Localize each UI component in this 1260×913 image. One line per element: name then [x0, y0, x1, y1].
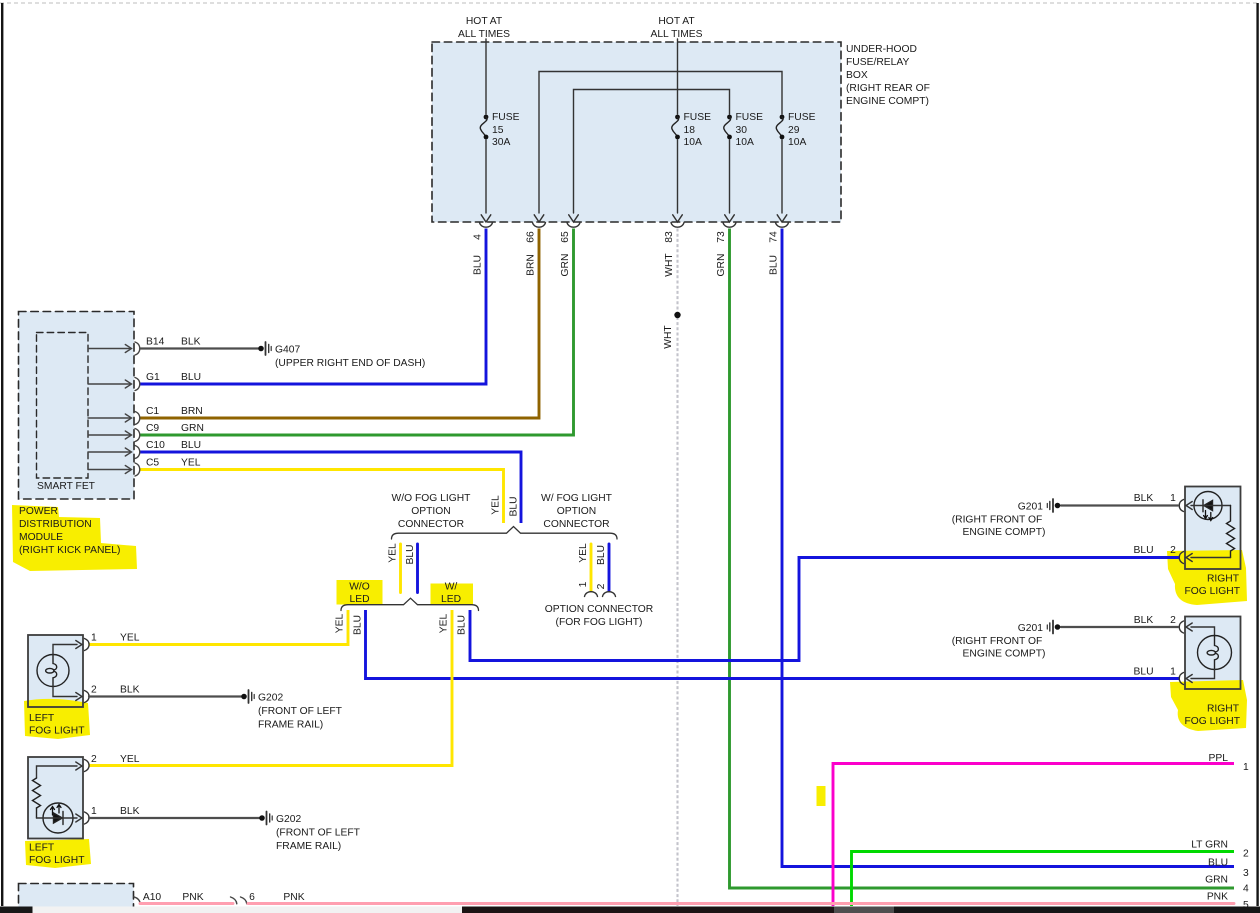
svg-text:10A: 10A: [736, 137, 754, 148]
bottom scrollbar track light segment: [0, 907, 1260, 913]
svg-text:HOT AT: HOT AT: [658, 16, 695, 27]
svg-text:POWER: POWER: [19, 506, 58, 517]
svg-text:GRN: GRN: [1205, 875, 1228, 886]
bottom module dashed border: [19, 884, 134, 913]
wire BRN from terminal 66 to pin C1: [140, 229, 539, 419]
svg-text:BLK: BLK: [1134, 493, 1154, 504]
right fog light 2 box fill: [1185, 617, 1241, 690]
wire PNK from inline connector to bottom right pin 5: [248, 902, 1234, 905]
led symbol right fog light 1: [1194, 492, 1222, 520]
terminal 65 arrow and connector: [567, 215, 580, 227]
svg-text:A10: A10: [143, 892, 162, 903]
svg-text:CONNECTOR: CONNECTOR: [543, 519, 609, 530]
terminal 4 arrow and connector: [480, 215, 493, 227]
svg-text:1: 1: [1243, 762, 1249, 773]
svg-text:YEL: YEL: [181, 458, 201, 469]
fuse 30 10A: [724, 112, 763, 148]
internal lead to pin 2 of left fog light 1: [53, 687, 82, 701]
resistor inside right fog light 1: [1227, 506, 1235, 558]
bottom scrollbar black left block: [0, 907, 33, 913]
svg-text:FUSE: FUSE: [788, 112, 816, 123]
power distribution module dashed border: [19, 312, 135, 500]
wire feed to fuse 18: [677, 39, 679, 114]
wire YEL w/ led branch to left fog light 2 pin 2: [89, 610, 452, 766]
pin G1 stub arrow and connector: [88, 378, 140, 391]
svg-text:4: 4: [473, 234, 484, 240]
wire GRN from terminal 65 to pin C9: [140, 229, 574, 436]
internal lead to pin 2 of left fog light 2: [37, 762, 83, 778]
svg-text:15: 15: [492, 125, 504, 136]
option connector terminal 1: [585, 592, 598, 597]
svg-text:1: 1: [91, 806, 97, 817]
wire fuse 18 to terminal 83: [677, 140, 679, 213]
wire PNK from A10 to inline connector: [140, 902, 233, 905]
svg-text:4: 4: [1243, 884, 1249, 895]
svg-text:BLU: BLU: [596, 545, 607, 565]
bulb lamp symbol right fog light 2: [1198, 636, 1232, 670]
svg-text:FOG LIGHT: FOG LIGHT: [1185, 586, 1241, 597]
svg-text:(RIGHT FRONT OF: (RIGHT FRONT OF: [952, 636, 1043, 647]
highlight: w/o led label: [337, 580, 383, 605]
svg-text:BLK: BLK: [120, 806, 140, 817]
smart fet dashed box: [37, 333, 89, 479]
label W/ FOG LIGHT OPTION CONNECTOR: [541, 493, 613, 530]
label RIGHT FOG LIGHT 1: [1185, 574, 1241, 598]
wire BLU w/ option branch: [608, 544, 611, 591]
svg-text:C9: C9: [146, 423, 159, 434]
wire BLK from left fog light 1 to ground G202: [89, 695, 241, 697]
svg-text:BOX: BOX: [846, 70, 868, 81]
internal lead to pin 1 of left fog light 1: [53, 641, 82, 655]
svg-text:2: 2: [596, 583, 607, 589]
label LEFT FOG LIGHT 1: [29, 713, 85, 737]
svg-text:C10: C10: [146, 440, 165, 451]
svg-text:FRAME RAIL): FRAME RAIL): [258, 720, 323, 731]
svg-text:(RIGHT REAR OF: (RIGHT REAR OF: [846, 83, 930, 94]
svg-text:18: 18: [684, 125, 696, 136]
pin 2 connector of left fog light 1: [85, 691, 90, 703]
svg-text:G201: G201: [1018, 502, 1043, 513]
terminal 66 arrow and connector: [533, 215, 546, 227]
led emission arrows left fog light 2: [51, 805, 62, 816]
svg-text:W/: W/: [445, 582, 458, 593]
resistor inside left fog light 2: [33, 778, 41, 808]
svg-text:PNK: PNK: [1207, 892, 1228, 903]
led symbol left fog light 2: [37, 803, 74, 833]
svg-text:3: 3: [1243, 868, 1249, 879]
svg-text:1: 1: [578, 581, 589, 587]
internal lead pin 1 of right fog light 1: [1186, 502, 1231, 510]
svg-text:LED: LED: [349, 594, 369, 605]
svg-text:UNDER-HOOD: UNDER-HOOD: [846, 44, 917, 55]
pin C5 stub arrow and connector: [88, 463, 140, 476]
svg-text:BLU: BLU: [405, 544, 416, 564]
ground G202 (front of left frame rail): [241, 690, 342, 731]
svg-text:6: 6: [249, 892, 255, 903]
wire color labels below fuse box: [473, 253, 780, 277]
svg-text:BLU: BLU: [457, 615, 468, 635]
left fog light 2 box: [28, 757, 83, 839]
svg-text:CONNECTOR: CONNECTOR: [398, 519, 464, 530]
svg-text:ENGINE COMPT): ENGINE COMPT): [846, 96, 929, 107]
svg-text:1: 1: [1170, 493, 1176, 504]
svg-text:PNK: PNK: [182, 892, 203, 903]
svg-text:10A: 10A: [788, 137, 806, 148]
led emission arrows right fog light 1: [1204, 511, 1213, 521]
right fog light 1 box fill: [1185, 487, 1241, 570]
svg-text:83: 83: [664, 231, 675, 243]
svg-text:BRN: BRN: [181, 406, 203, 417]
terminal 73 arrow and connector: [723, 215, 736, 227]
svg-text:65: 65: [560, 231, 571, 243]
svg-text:GRN: GRN: [716, 254, 727, 277]
label LEFT FOG LIGHT 2: [29, 843, 85, 867]
svg-text:2: 2: [1243, 849, 1249, 860]
node splice on WHT wire: [674, 312, 680, 318]
label POWER DISTRIBUTION MODULE (RIGHT KICK PANEL): [19, 506, 120, 556]
pin A10 connector: [134, 897, 141, 904]
pin 2 connector of right fog light 2: [1179, 621, 1183, 633]
wire BLK from left fog light 2 to ground G202: [89, 817, 259, 819]
wire LT GRN to bottom right pin 2: [852, 852, 1235, 907]
svg-text:(FRONT OF LEFT: (FRONT OF LEFT: [258, 706, 343, 717]
wire BLU w/o option branch: [416, 544, 419, 593]
fuse 18 10A: [672, 112, 711, 148]
wire BLK from pin B14 to ground G407: [140, 347, 258, 349]
pin 1 connector of left fog light 1: [85, 639, 90, 651]
wire BLU from terminal 74 to bottom right pin 3: [782, 229, 1234, 867]
wire fuse 29 to terminal 74: [781, 140, 783, 213]
label W/O LED: [349, 582, 370, 606]
pin number labels for fuse box terminals: [473, 231, 780, 243]
svg-text:GRN: GRN: [181, 423, 204, 434]
pin labels B14 BLK / G1 BLU / C1 BRN / C9 GRN / C10 BLU / C5 YEL: [146, 337, 204, 469]
svg-text:C1: C1: [146, 406, 159, 417]
wire BLU w/o led branch to right fog light 2 pin 1: [366, 610, 1181, 679]
svg-text:2: 2: [91, 685, 97, 696]
svg-text:FUSE/RELAY: FUSE/RELAY: [846, 57, 909, 68]
wire BLK from ground G201 to right fog light 2: [1061, 626, 1178, 628]
internal lead pin 1 of right fog light 2: [1186, 670, 1215, 683]
svg-text:66: 66: [526, 231, 537, 243]
svg-text:OPTION CONNECTOR: OPTION CONNECTOR: [545, 604, 654, 615]
pin 2 connector of right fog light 1: [1179, 552, 1183, 564]
svg-text:G201: G201: [1018, 623, 1043, 634]
svg-text:G407: G407: [275, 345, 300, 356]
svg-text:2: 2: [91, 754, 97, 765]
bottom scrollbar dark right segment: [894, 907, 1260, 913]
wire bus to fuse 29 and terminal 66: [539, 72, 782, 214]
svg-text:10A: 10A: [684, 137, 702, 148]
svg-text:30A: 30A: [492, 137, 510, 148]
brace for led option split: [341, 598, 479, 610]
bottom scrollbar gray thumb: [834, 907, 894, 913]
svg-text:ALL TIMES: ALL TIMES: [458, 29, 510, 40]
svg-text:GRN: GRN: [560, 254, 571, 277]
right fog light 1 box: [1185, 487, 1241, 570]
svg-text:BLK: BLK: [181, 337, 201, 348]
inline connector pin 6: [231, 897, 247, 904]
highlight: right fog light 1 label: [1167, 550, 1247, 605]
wire GRN from terminal 73 to bottom right pin 4: [730, 229, 1235, 889]
svg-text:(FRONT OF LEFT: (FRONT OF LEFT: [276, 828, 361, 839]
canvas right border: [1256, 3, 1258, 906]
svg-text:PPL: PPL: [1209, 753, 1229, 764]
bulb lamp symbol left fog light 1: [37, 655, 69, 687]
svg-text:FRAME RAIL): FRAME RAIL): [276, 841, 341, 852]
left fog light 1 box: [28, 635, 83, 707]
svg-text:BLU: BLU: [1133, 545, 1153, 556]
svg-text:RIGHT: RIGHT: [1207, 704, 1240, 715]
left fog light 1 box fill: [28, 635, 83, 707]
svg-text:1: 1: [1170, 667, 1176, 678]
svg-text:YEL: YEL: [491, 495, 502, 515]
svg-text:G1: G1: [146, 372, 160, 383]
svg-text:2: 2: [1170, 545, 1176, 556]
pin 1 connector of right fog light 1: [1179, 500, 1183, 512]
svg-text:PNK: PNK: [283, 892, 304, 903]
svg-text:BRN: BRN: [526, 254, 537, 276]
svg-text:(UPPER RIGHT END OF DASH): (UPPER RIGHT END OF DASH): [275, 358, 425, 369]
pin C10 stub arrow and connector: [88, 446, 140, 459]
svg-text:G202: G202: [258, 693, 283, 704]
svg-text:ENGINE COMPT): ENGINE COMPT): [963, 527, 1046, 538]
internal lead pin 2 of right fog light 2: [1186, 623, 1215, 636]
highlight: left fog light 2 label: [25, 839, 91, 868]
pin 1 connector of left fog light 2: [85, 812, 90, 824]
under-hood fuse/relay box dashed border: [432, 42, 841, 222]
svg-text:LEFT: LEFT: [29, 843, 55, 854]
pin C1 stub arrow and connector: [88, 412, 140, 425]
svg-text:29: 29: [788, 125, 800, 136]
pin 2 connector of left fog light 2: [85, 760, 90, 772]
wire feed to fuse 15: [485, 39, 487, 114]
highlight: w/ led label: [431, 584, 474, 605]
svg-text:BLU: BLU: [181, 440, 201, 451]
svg-text:(RIGHT FRONT OF: (RIGHT FRONT OF: [952, 515, 1043, 526]
svg-text:G202: G202: [276, 814, 301, 825]
svg-text:(RIGHT KICK PANEL): (RIGHT KICK PANEL): [19, 545, 120, 556]
svg-text:2: 2: [1170, 615, 1176, 626]
svg-text:YEL: YEL: [388, 543, 399, 563]
svg-text:HOT AT: HOT AT: [466, 16, 503, 27]
svg-text:ALL TIMES: ALL TIMES: [650, 29, 702, 40]
svg-text:BLU: BLU: [1133, 667, 1153, 678]
svg-text:FOG LIGHT: FOG LIGHT: [29, 726, 85, 737]
label RIGHT FOG LIGHT 2: [1185, 704, 1241, 728]
svg-text:YEL: YEL: [335, 613, 346, 633]
svg-text:BLU: BLU: [769, 255, 780, 275]
svg-text:BLU: BLU: [353, 615, 364, 635]
ground G202 second (front of left frame rail): [259, 812, 360, 853]
wire WHT 83 (dashed): [676, 229, 678, 907]
svg-text:WHT: WHT: [664, 253, 675, 277]
label W/ LED: [441, 582, 461, 606]
ground G201 second (right front of engine compt): [952, 621, 1061, 660]
bottom module box fill: [19, 884, 134, 910]
svg-text:OPTION: OPTION: [557, 506, 596, 517]
ground G201 (right front of engine compt): [952, 499, 1061, 538]
svg-text:RIGHT: RIGHT: [1207, 574, 1240, 585]
fuse 29 10A: [776, 112, 815, 148]
svg-text:W/ FOG LIGHT: W/ FOG LIGHT: [541, 493, 613, 504]
highlight: left fog light 1 label: [24, 699, 90, 739]
svg-text:W/O: W/O: [349, 582, 370, 593]
svg-text:YEL: YEL: [120, 633, 140, 644]
svg-text:FOG LIGHT: FOG LIGHT: [29, 855, 85, 866]
wire YEL w/o led branch to left fog light 1 pin 1: [89, 610, 348, 645]
svg-text:OPTION: OPTION: [411, 506, 450, 517]
wire BLU w/ led branch to right fog light 1 pin 2: [470, 558, 1180, 661]
brace for fog light option connector split: [392, 527, 618, 540]
svg-text:FUSE: FUSE: [492, 112, 520, 123]
svg-text:W/O FOG LIGHT: W/O FOG LIGHT: [392, 493, 472, 504]
terminal 74 arrow and connector: [776, 215, 789, 227]
svg-text:WHT: WHT: [663, 325, 674, 349]
power distribution module box fill: [19, 312, 135, 500]
wire PPL to bottom right pin 1: [833, 764, 1234, 907]
svg-text:FOG LIGHT: FOG LIGHT: [1185, 716, 1241, 727]
svg-text:YEL: YEL: [120, 754, 140, 765]
svg-text:BLK: BLK: [120, 685, 140, 696]
pin C9 stub arrow and connector: [88, 429, 140, 442]
bottom scrollbar dark mid segment: [462, 907, 834, 913]
wire YEL w/ option branch: [590, 544, 593, 591]
svg-text:DISTRIBUTION: DISTRIBUTION: [19, 519, 92, 530]
label UNDER-HOOD FUSE/RELAY BOX: [846, 44, 930, 107]
option connector terminal 2: [603, 592, 616, 597]
wire BLU from pin C10 down to option brace: [140, 452, 521, 523]
internal lead pin 2 of right fog light 1: [1186, 554, 1231, 562]
svg-text:YEL: YEL: [578, 543, 589, 563]
svg-text:ENGINE COMPT): ENGINE COMPT): [963, 649, 1046, 660]
svg-text:B14: B14: [146, 337, 165, 348]
svg-text:FUSE: FUSE: [684, 112, 712, 123]
svg-text:BLU: BLU: [1208, 858, 1228, 869]
wire fuse 15 to terminal 4: [485, 140, 487, 213]
wire YEL w/o option branch: [399, 544, 402, 593]
svg-text:BLK: BLK: [1134, 615, 1154, 626]
fuse 15 30A: [480, 112, 519, 148]
pin B14 stub arrow and connector: [88, 342, 140, 355]
highlight: power distribution module label: [12, 505, 137, 571]
highlight: small tick near ppl wire: [817, 786, 826, 806]
wire BLU from fuse 15 terminal 4 to pin G1: [140, 229, 486, 385]
label OPTION CONNECTOR (FOR FOG LIGHT): [545, 604, 654, 628]
svg-text:MODULE: MODULE: [19, 532, 63, 543]
svg-text:BLU: BLU: [473, 255, 484, 275]
canvas left border: [1, 3, 3, 906]
wire YEL from pin C5 down to option brace: [140, 470, 504, 524]
svg-text:SMART FET: SMART FET: [37, 481, 96, 492]
svg-text:30: 30: [736, 125, 748, 136]
svg-text:BLU: BLU: [509, 496, 520, 516]
canvas top dashed border: [0, 2, 1260, 4]
svg-text:74: 74: [769, 231, 780, 243]
svg-text:BLU: BLU: [181, 372, 201, 383]
wire bus to fuse 30 and terminal 65: [574, 90, 730, 214]
svg-text:FUSE: FUSE: [736, 112, 764, 123]
svg-text:YEL: YEL: [439, 613, 450, 633]
svg-text:LT GRN: LT GRN: [1191, 840, 1228, 851]
right fog light 2 box: [1185, 617, 1241, 690]
wire BLK from ground G201 to right fog light 1: [1061, 504, 1178, 506]
under-hood fuse/relay box fill: [432, 42, 841, 222]
svg-text:C5: C5: [146, 458, 159, 469]
svg-text:(FOR FOG LIGHT): (FOR FOG LIGHT): [556, 617, 643, 628]
svg-text:LEFT: LEFT: [29, 713, 55, 724]
pin 1 connector of right fog light 2: [1179, 673, 1183, 685]
svg-text:LED: LED: [441, 594, 461, 605]
wire fuse 30 to terminal 73: [729, 140, 731, 213]
internal lead to pin 1 of left fog light 2: [37, 814, 83, 822]
terminal 83 arrow and connector: [671, 215, 684, 227]
label W/O FOG LIGHT OPTION CONNECTOR: [392, 493, 472, 530]
svg-text:73: 73: [716, 231, 727, 243]
ground G407: [258, 342, 425, 369]
svg-text:1: 1: [91, 633, 97, 644]
highlight: right fog light 2 label: [1170, 680, 1247, 731]
left fog light 2 box fill: [28, 757, 83, 839]
